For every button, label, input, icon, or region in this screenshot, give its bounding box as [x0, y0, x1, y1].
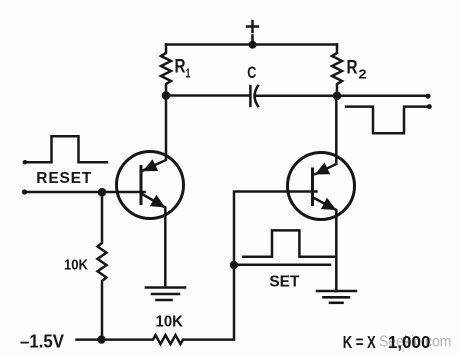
resistor R2 — [332, 45, 342, 96]
svg-text:–1.5V: –1.5V — [20, 332, 64, 352]
wire RESET input to base Q1 — [24, 191, 145, 194]
ground Q1 emitter — [146, 286, 185, 289]
node collector Q2 / R2 — [333, 92, 342, 101]
resistor R1 — [161, 45, 171, 96]
transistor Q2 — [288, 153, 355, 220]
svg-text:10K: 10K — [156, 314, 184, 331]
wire output lead — [337, 95, 428, 98]
svg-text:SET: SET — [269, 274, 299, 291]
junction SET / base line — [230, 261, 238, 269]
svg-text:RESET: RESET — [36, 170, 92, 187]
wire emitter Q1 — [142, 194, 165, 287]
svg-text:K = X: K = X — [343, 332, 376, 352]
svg-text:C: C — [247, 63, 256, 82]
capacitor C — [249, 86, 252, 106]
wire capacitor to node R2 — [255, 95, 337, 98]
wire SET input stub — [234, 264, 330, 267]
RESET waveform positive pulse — [24, 136, 107, 162]
svg-text:10K: 10K — [64, 257, 88, 274]
SET waveform positive pulse — [243, 230, 334, 256]
svg-text:1: 1 — [186, 66, 191, 81]
node collector Q1 / R1 — [162, 91, 171, 100]
transistor Q1 — [117, 152, 184, 219]
wire collector Q1 — [143, 96, 166, 171]
svg-text:1,000: 1,000 — [388, 332, 431, 352]
wire emitter Q2 — [313, 198, 336, 292]
svg-text:R: R — [175, 56, 186, 77]
junction RESET / 10K divider — [98, 188, 107, 197]
node + supply terminal stub — [247, 21, 258, 44]
svg-text:R: R — [347, 57, 358, 78]
wire collector Q2 — [315, 96, 336, 174]
output waveform negative pulse — [346, 107, 430, 134]
resistor 10K vertical — [98, 192, 107, 339]
wire -1.5V rail with resistor 10K horizontal — [77, 192, 317, 345]
junction supply rail — [249, 41, 257, 49]
ground Q2 emitter — [317, 290, 356, 293]
junction -1.5V rail — [97, 335, 105, 343]
wire top supply rail — [166, 43, 337, 46]
wire node R1 to capacitor — [166, 94, 250, 97]
svg-text:2: 2 — [359, 67, 367, 82]
